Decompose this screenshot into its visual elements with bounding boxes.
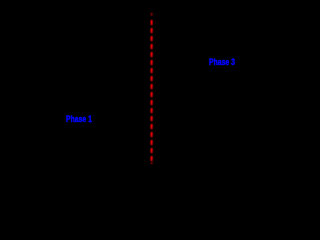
label Phase 1 (66, 114, 92, 124)
dashed red phase-boundary line (0, 0, 270, 189)
label Phase 3 (209, 57, 235, 67)
